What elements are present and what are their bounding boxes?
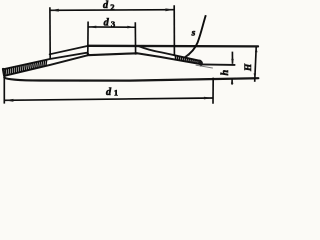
svg-text:2: 2 [110, 2, 114, 12]
svg-text:s: s [191, 27, 196, 38]
svg-text:d: d [104, 18, 110, 29]
svg-text:h: h [220, 70, 231, 76]
svg-text:3: 3 [111, 19, 115, 29]
svg-text:1: 1 [114, 89, 118, 98]
svg-text:H: H [243, 63, 253, 72]
